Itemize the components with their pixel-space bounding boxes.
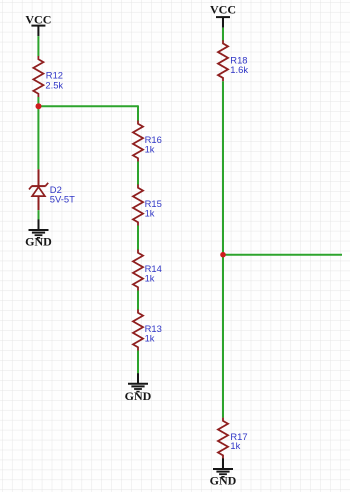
svg-text:VCC: VCC — [25, 12, 51, 26]
svg-text:GND: GND — [125, 389, 152, 403]
svg-text:1k: 1k — [145, 208, 155, 219]
resistor R16 — [133, 121, 143, 162]
ground GND left — [25, 219, 52, 248]
resistor R17 — [218, 418, 228, 459]
svg-text:1k: 1k — [145, 273, 155, 284]
svg-text:1k: 1k — [145, 144, 155, 155]
svg-text:2.5k: 2.5k — [45, 79, 63, 90]
wire R14 to R13 — [137, 291, 139, 310]
wire R13 to GND — [137, 351, 139, 374]
resistor R18 — [218, 40, 228, 81]
ground GND middle — [125, 373, 152, 403]
junction node right — [220, 252, 226, 258]
svg-text:GND: GND — [210, 474, 237, 488]
junction node left — [36, 103, 42, 109]
svg-text:5V-5T: 5V-5T — [50, 194, 75, 205]
resistor R15 — [133, 185, 143, 226]
resistor R14 — [133, 250, 143, 291]
ground GND right — [210, 458, 237, 487]
wire R16 to R15 — [137, 162, 139, 185]
wire middle branch down — [137, 105, 139, 120]
wire R15 to R14 — [137, 226, 139, 250]
wire node to middle branch — [38, 105, 138, 107]
svg-text:1k: 1k — [230, 440, 240, 451]
svg-text:GND: GND — [25, 235, 52, 249]
svg-text:1k: 1k — [145, 333, 155, 344]
wire R12 to node — [37, 97, 39, 106]
wire node to D2 — [37, 106, 39, 169]
wire VCC to R12 — [37, 36, 39, 56]
wire D2 to GND — [38, 210, 40, 219]
zener diode D2 — [29, 169, 48, 210]
resistor R13 — [133, 310, 143, 351]
svg-text:1.6k: 1.6k — [230, 64, 248, 75]
wire VCC to R18 — [222, 28, 224, 41]
power port VCC left — [25, 12, 51, 36]
wire R18 to R17 through node — [222, 81, 224, 418]
resistor R12 — [33, 56, 43, 97]
power port VCC right — [210, 2, 236, 27]
wire node to right edge — [223, 254, 342, 256]
svg-text:VCC: VCC — [210, 2, 236, 16]
